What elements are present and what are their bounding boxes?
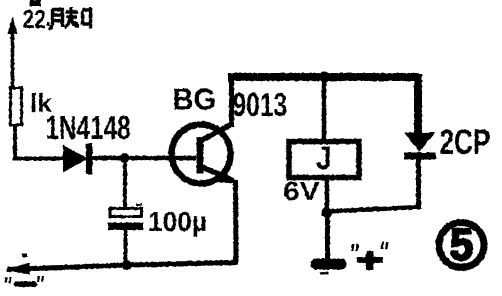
node junction dot bottom rail bbox=[122, 260, 132, 270]
label quoted plus bbox=[351, 242, 389, 270]
label 22脚 bbox=[23, 6, 91, 35]
svg-text:22: 22 bbox=[23, 6, 46, 35]
月 radical bbox=[49, 10, 63, 30]
capacitor C1 100u bbox=[108, 204, 143, 231]
relay J bbox=[289, 142, 359, 178]
wire collector to top rail bbox=[229, 76, 234, 127]
node junction dot relay/ground bbox=[322, 207, 333, 218]
svg-text:1N4148: 1N4148 bbox=[46, 109, 131, 147]
svg-text:2CP: 2CP bbox=[440, 122, 491, 162]
wire junction to capacitor bbox=[123, 158, 127, 209]
wire capacitor to ground rail bbox=[124, 230, 128, 265]
wire resistor to diode bbox=[15, 124, 64, 159]
svg-text:6V: 6V bbox=[283, 177, 320, 206]
node junction dot base/cap bbox=[120, 153, 130, 163]
去 part bbox=[65, 7, 80, 28]
label circled 5 bbox=[439, 220, 484, 269]
wire relay to junction bbox=[325, 178, 330, 213]
wire junction to diode branch bbox=[327, 207, 420, 212]
卩 part bbox=[83, 7, 91, 29]
svg-text:100µ: 100µ bbox=[148, 205, 207, 237]
wire top rail right corner down to diode bbox=[414, 74, 422, 133]
transistor Q1 BG 9013 bbox=[172, 125, 236, 184]
label quoted minus bbox=[5, 276, 45, 287]
diode D1 1N4148 bbox=[63, 144, 93, 175]
svg-text:BG: BG bbox=[173, 83, 217, 117]
stray scan speck above arrow bbox=[22, 254, 27, 258]
glyph 脚 (hand-drawn strokes) bbox=[49, 7, 91, 30]
svg-text:5: 5 bbox=[450, 220, 473, 269]
node minus terminal arrow bbox=[6, 263, 31, 275]
node junction dot top rail bbox=[319, 72, 330, 83]
diode D2 2CP bbox=[404, 133, 436, 210]
node 22-pin input arrow bbox=[8, 16, 18, 88]
wire top rail to relay bbox=[322, 80, 327, 140]
ground bbox=[311, 215, 347, 275]
resistor 1k bbox=[11, 88, 22, 125]
wire top rail bbox=[228, 73, 419, 81]
stray scan mark top edge bbox=[30, 0, 41, 6]
svg-text:9013: 9013 bbox=[233, 86, 288, 124]
wire bottom rail with emitter return bbox=[7, 180, 236, 270]
wire diode to base bbox=[91, 156, 196, 161]
svg-text:J: J bbox=[316, 141, 332, 176]
